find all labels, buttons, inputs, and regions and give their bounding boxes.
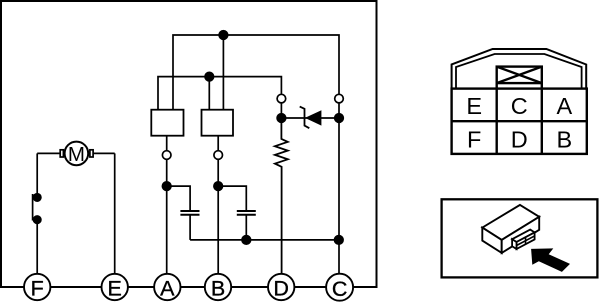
pin contact under coil1 xyxy=(162,151,171,160)
svg-text:A: A xyxy=(556,93,572,119)
relay connector block top face xyxy=(512,230,535,242)
pin contact C branch xyxy=(335,94,344,103)
svg-text:F: F xyxy=(31,277,44,301)
wire diode row xyxy=(281,117,339,119)
terminal C xyxy=(326,274,353,301)
node junction second bus xyxy=(205,72,214,81)
svg-text:F: F xyxy=(467,127,481,153)
svg-text:B: B xyxy=(556,127,572,153)
relay connector block dividers xyxy=(517,236,535,246)
svg-text:A: A xyxy=(160,277,175,301)
node junction top bus xyxy=(219,31,228,40)
node bottom bus C xyxy=(335,236,344,245)
terminal E xyxy=(102,274,128,301)
node diode left xyxy=(277,114,286,123)
node diode right xyxy=(335,114,344,123)
pointer arrow xyxy=(531,248,570,272)
wire F column lower xyxy=(36,220,38,287)
wire bottom bus xyxy=(190,239,339,241)
svg-text:D: D xyxy=(511,127,528,153)
svg-text:M: M xyxy=(68,143,85,166)
capacitor C1 xyxy=(180,211,199,215)
svg-text:C: C xyxy=(511,93,528,119)
switch xyxy=(33,194,41,224)
node A branch xyxy=(162,182,171,191)
relay location frame xyxy=(442,199,598,277)
svg-text:E: E xyxy=(466,93,482,119)
wire C column xyxy=(338,118,340,287)
relay connector block front face xyxy=(517,232,535,249)
pin contact under coil2 xyxy=(214,151,223,160)
terminal F xyxy=(24,274,50,301)
enclosure box xyxy=(1,1,377,287)
wire E column xyxy=(114,153,116,287)
wire second bus xyxy=(158,77,281,110)
terminal D xyxy=(268,274,294,301)
wire to capacitor C1 xyxy=(167,186,190,211)
pin contact D branch xyxy=(277,94,286,103)
connector pin grid xyxy=(452,89,587,154)
svg-text:E: E xyxy=(108,277,122,301)
svg-text:C: C xyxy=(332,277,348,301)
wire coil1 feed from top bus xyxy=(222,35,224,110)
relay connector block left face xyxy=(512,239,516,249)
zener diode xyxy=(300,107,322,129)
svg-text:B: B xyxy=(211,277,225,301)
wire C pin to node xyxy=(338,103,340,118)
connector key (crossed box) xyxy=(497,67,542,89)
terminal A xyxy=(154,274,180,301)
relay coil 2 xyxy=(202,110,234,136)
wire C2 to bottom bus xyxy=(245,215,247,240)
svg-text:D: D xyxy=(273,277,289,301)
wire coil2 feed from second bus xyxy=(208,77,210,110)
wire coil1 to A xyxy=(166,136,168,287)
relay coil 1 xyxy=(151,110,183,136)
motor M xyxy=(60,142,93,166)
capacitor C2 xyxy=(237,211,256,215)
node bottom bus C2 xyxy=(242,236,251,245)
wire top bus xyxy=(173,35,339,110)
wire to capacitor C2 xyxy=(218,186,246,211)
connector pinout housing xyxy=(452,49,587,154)
wire C1 to bottom bus xyxy=(189,215,191,240)
wire D pin to node xyxy=(280,103,282,118)
wire coil2 to B xyxy=(217,136,219,287)
node B branch xyxy=(214,182,223,191)
relay body left face xyxy=(482,228,501,253)
terminal B xyxy=(205,274,231,301)
resistor xyxy=(275,122,288,287)
relay body top face xyxy=(482,205,539,240)
wire motor row xyxy=(37,152,115,154)
relay body right face xyxy=(502,217,540,253)
wire F column upper xyxy=(36,153,38,197)
